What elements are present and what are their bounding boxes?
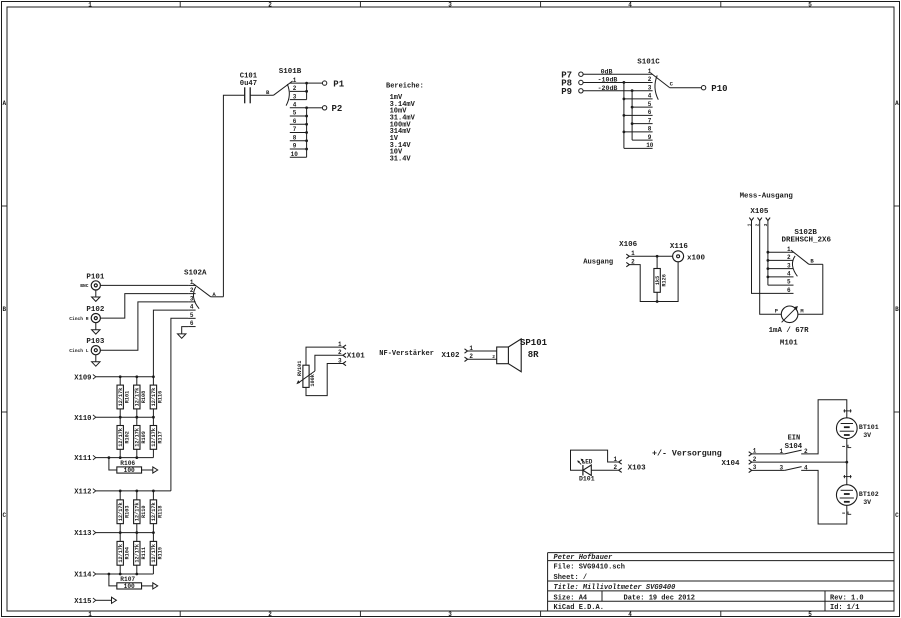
svg-text:1: 1 <box>613 456 617 463</box>
svg-text:12/17k: 12/17k <box>118 502 124 521</box>
wire P101 ground stub <box>95 290 97 297</box>
svg-text:9: 9 <box>293 143 297 150</box>
wire R103 leads <box>119 491 121 533</box>
connector P9 <box>579 89 583 93</box>
svg-text:5: 5 <box>808 611 812 618</box>
svg-text:1mA / 67R: 1mA / 67R <box>769 327 809 335</box>
junction dots S101C buses <box>623 81 626 84</box>
resistor R110 (12/17k) <box>134 500 147 524</box>
svg-text:4: 4 <box>787 271 791 278</box>
svg-text:Ausgang: Ausgang <box>583 258 613 266</box>
svg-text:P2: P2 <box>332 104 343 114</box>
svg-text:S104: S104 <box>785 443 803 451</box>
svg-text:X106: X106 <box>619 241 638 249</box>
svg-text:R117: R117 <box>158 431 164 443</box>
wire X114 rail <box>96 573 153 575</box>
port arrow X115 <box>112 597 117 603</box>
svg-text:5: 5 <box>293 110 297 117</box>
wire X102 pin2 to SP101 <box>468 358 497 360</box>
svg-text:31.4V: 31.4V <box>390 156 412 164</box>
wire S102A pin6 to ground <box>182 327 188 334</box>
wire P103 to S102A pin3 <box>100 302 188 350</box>
resistor R103 (12/17k) <box>117 500 130 524</box>
svg-text:1: 1 <box>648 68 652 75</box>
speaker SP101 (8R) <box>492 339 521 372</box>
wire S102A pin4 to X109 rail <box>153 310 188 377</box>
svg-text:3: 3 <box>448 611 452 618</box>
svg-text:8: 8 <box>293 134 297 141</box>
resistor R106 (100) <box>117 460 142 474</box>
wire S101B pin1 to P1 <box>307 82 323 84</box>
svg-text:Date: 19 dec 2012: Date: 19 dec 2012 <box>624 594 695 602</box>
svg-text:X103: X103 <box>628 464 647 472</box>
svg-text:0u47: 0u47 <box>240 80 257 88</box>
svg-text:2: 2 <box>338 349 342 356</box>
svg-text:R103: R103 <box>124 506 130 518</box>
svg-text:R110: R110 <box>141 506 147 518</box>
svg-text:12/17k: 12/17k <box>151 428 157 447</box>
svg-text:R104: R104 <box>124 547 130 559</box>
ground at P103 <box>92 362 100 366</box>
wire R116 leads <box>152 377 154 417</box>
svg-text:B: B <box>895 306 899 313</box>
wire R102 leads <box>119 417 121 457</box>
svg-text:12/17k: 12/17k <box>135 544 141 563</box>
svg-text:12/17k: 12/17k <box>151 502 157 521</box>
svg-text:2: 2 <box>268 1 272 8</box>
svg-text:8: 8 <box>648 126 652 133</box>
svg-text:X115: X115 <box>74 598 91 606</box>
connector P8 <box>579 80 583 84</box>
wire X112 rail <box>96 490 171 492</box>
svg-text:S101C: S101C <box>637 59 660 67</box>
wire R104 leads <box>119 533 121 574</box>
wire X111 to R106 <box>109 458 117 470</box>
svg-text:Mess-Ausgang: Mess-Ausgang <box>740 193 794 201</box>
wire RV101 bottom to X101 pin3 <box>306 364 343 396</box>
svg-text:5: 5 <box>190 312 194 319</box>
wire R117 leads <box>152 417 154 457</box>
svg-text:Rev: 1.0: Rev: 1.0 <box>830 594 864 602</box>
svg-text:X102: X102 <box>441 352 460 360</box>
wire X106 pin1 to X116 <box>629 255 672 257</box>
resistor R104 (12/17k) <box>117 541 130 565</box>
svg-text:+/- Versorgung: +/- Versorgung <box>652 449 722 459</box>
svg-text:5: 5 <box>808 1 812 8</box>
junction dots resistor matrix <box>119 375 122 378</box>
wire S104 pin2 to battery top <box>801 400 847 454</box>
switch S104 pole 2 <box>785 467 802 471</box>
svg-text:4: 4 <box>293 102 297 109</box>
svg-text:7: 7 <box>293 126 297 133</box>
wire R118 leads <box>152 491 154 533</box>
svg-text:BNC: BNC <box>80 283 89 289</box>
svg-text:10: 10 <box>646 142 654 149</box>
wire RV101 top to X101 pin1 <box>306 347 343 365</box>
meter M101 (1mA / 67R) <box>775 306 804 323</box>
wire R106 to port <box>142 469 153 471</box>
svg-text:7: 7 <box>648 117 652 124</box>
ground at S102A pin6 <box>178 334 186 338</box>
svg-text:P102: P102 <box>86 306 105 314</box>
wire R119 leads <box>152 533 154 574</box>
svg-text:2: 2 <box>648 76 652 83</box>
wire X106 pin2 to bottom rail <box>629 262 678 302</box>
svg-text:KiCad E.D.A.: KiCad E.D.A. <box>554 604 604 612</box>
connector P103 (Cinch L) <box>91 346 100 355</box>
svg-text:Peter Hofbauer: Peter Hofbauer <box>554 554 614 562</box>
svg-text:NF-Verstärker: NF-Verstärker <box>379 350 434 358</box>
svg-text:S101B: S101B <box>279 68 302 76</box>
svg-text:X104: X104 <box>722 460 741 468</box>
potentiometer RV101 (100k) <box>296 361 316 388</box>
resistor R126 (1k5) <box>654 269 667 293</box>
wire P102 ground stub <box>95 322 97 329</box>
junction dots S102B bus <box>767 251 770 254</box>
resistor R102 (12/17k) <box>117 426 130 450</box>
connector P10 <box>701 86 705 90</box>
wire X104 pin2 to battery midpoint <box>752 461 847 463</box>
svg-text:6: 6 <box>648 109 652 116</box>
svg-text:D101: D101 <box>579 476 595 483</box>
svg-text:100: 100 <box>124 467 135 474</box>
wire P7 to S101C pin1 <box>583 73 653 75</box>
svg-text:1: 1 <box>338 341 342 348</box>
svg-text:Size: A4: Size: A4 <box>554 594 588 602</box>
svg-text:1: 1 <box>88 611 92 618</box>
svg-text:4: 4 <box>190 304 194 311</box>
svg-text:B: B <box>2 306 6 313</box>
svg-text:1: 1 <box>293 77 297 84</box>
svg-text:2: 2 <box>613 464 617 471</box>
svg-text:P10: P10 <box>711 84 727 94</box>
svg-text:5: 5 <box>787 279 791 286</box>
wire X104 pin3 to S104 pole2 <box>752 469 785 471</box>
wire R107 to port <box>142 585 153 587</box>
svg-text:3: 3 <box>779 464 783 471</box>
svg-text:M: M <box>800 308 803 314</box>
wire X113 rail <box>96 532 153 534</box>
svg-text:3: 3 <box>338 357 342 364</box>
wire S104 pin4 to battery bottom <box>801 470 847 524</box>
svg-text:R108: R108 <box>141 391 147 403</box>
svg-text:1: 1 <box>190 279 194 286</box>
wire R111 leads <box>136 533 138 574</box>
connector X103 <box>619 460 622 464</box>
wire P103 ground stub <box>95 355 97 362</box>
svg-text:1k5: 1k5 <box>655 276 661 285</box>
svg-text:1: 1 <box>88 1 92 8</box>
svg-text:x100: x100 <box>687 255 706 263</box>
svg-text:3: 3 <box>293 93 297 100</box>
wire S101C common to P10 <box>670 87 702 89</box>
wire X111 rail <box>96 457 153 459</box>
resistor R107 (100) <box>117 576 142 590</box>
svg-text:2: 2 <box>787 254 791 261</box>
svg-text:M101: M101 <box>780 339 798 347</box>
svg-text:6: 6 <box>190 320 194 327</box>
svg-text:1: 1 <box>779 448 783 455</box>
svg-text:R101: R101 <box>124 391 130 403</box>
wire X115 stub <box>96 599 112 601</box>
svg-text:Id: 1/1: Id: 1/1 <box>830 604 859 612</box>
svg-text:X113: X113 <box>74 530 91 538</box>
wire X102 pin1 to SP101 <box>468 350 497 352</box>
svg-text:P1: P1 <box>333 79 344 89</box>
svg-text:File: SVG9410.sch: File: SVG9410.sch <box>554 564 625 572</box>
svg-text:3V: 3V <box>863 432 871 439</box>
wire RV101 wiper to X101 pin2 <box>315 355 343 371</box>
svg-text:8R: 8R <box>528 350 539 360</box>
svg-text:X114: X114 <box>74 572 92 580</box>
svg-text:BT101: BT101 <box>859 424 879 431</box>
port arrow after R107 <box>153 583 158 589</box>
svg-text:12/17k: 12/17k <box>151 388 157 407</box>
svg-text:10: 10 <box>291 151 299 158</box>
wire X109 rail <box>96 376 153 378</box>
svg-text:R116: R116 <box>158 391 164 403</box>
svg-text:12/17k: 12/17k <box>135 388 141 407</box>
wire X104 pin1 to S104 pole1 <box>752 453 785 455</box>
connector P102 (Cinch R) <box>91 314 100 323</box>
svg-text:12/17k: 12/17k <box>118 428 124 447</box>
svg-text:A: A <box>895 100 899 107</box>
svg-text:12/17k: 12/17k <box>135 428 141 447</box>
svg-text:6: 6 <box>293 118 297 125</box>
svg-text:Bereiche:: Bereiche: <box>386 82 424 90</box>
svg-text:X110: X110 <box>74 415 91 423</box>
svg-text:1: 1 <box>787 246 791 253</box>
wire R110 leads <box>136 491 138 533</box>
wire X114 to R107 <box>109 574 117 586</box>
wire S102A pin5 to X112 rail <box>171 318 188 491</box>
switch S104 pole 1 <box>785 450 802 454</box>
svg-text:12/17k: 12/17k <box>118 544 124 563</box>
svg-text:4: 4 <box>628 611 632 618</box>
svg-text:3V: 3V <box>863 499 871 506</box>
wire S101B pin4 to P2 <box>307 107 323 109</box>
wire X105 pin1 to S102B pin6 <box>752 221 794 294</box>
svg-text:2: 2 <box>268 611 272 618</box>
junction dot battery midpoint <box>845 461 848 464</box>
wire R101 leads <box>119 377 121 417</box>
svg-text:5: 5 <box>648 101 652 108</box>
svg-text:R109: R109 <box>141 431 147 443</box>
svg-text:3: 3 <box>190 295 194 302</box>
connector X101 <box>343 345 346 349</box>
svg-text:Sheet: /: Sheet: / <box>554 574 588 582</box>
svg-text:4: 4 <box>648 93 652 100</box>
svg-text:R106: R106 <box>120 460 135 467</box>
junction dot R126 top <box>656 255 659 258</box>
wire X110 rail <box>96 416 153 418</box>
connector P7 <box>579 72 583 76</box>
svg-text:P: P <box>775 308 778 314</box>
junction dot R126 bottom <box>656 300 659 303</box>
svg-text:R107: R107 <box>120 576 135 583</box>
wire S102A common A to C101 <box>223 95 244 296</box>
connector X116 <box>673 251 684 262</box>
wire LED anode to X103 pin2 <box>591 469 618 471</box>
svg-text:SP101: SP101 <box>520 338 548 348</box>
resistor R118 (12/17k) <box>150 500 163 524</box>
svg-text:EIN: EIN <box>788 435 801 443</box>
svg-text:S102A: S102A <box>184 270 207 278</box>
svg-text:100: 100 <box>124 583 135 590</box>
svg-text:BT102: BT102 <box>859 491 879 498</box>
LED D101 <box>577 459 591 476</box>
wire R109 leads <box>136 417 138 457</box>
text Bereiche list <box>386 82 424 163</box>
wire P9 to S101C pin3 <box>583 90 653 92</box>
junction dots S101B bus <box>305 82 308 85</box>
svg-text:P9: P9 <box>561 87 572 97</box>
svg-text:2: 2 <box>293 85 297 92</box>
svg-text:A: A <box>2 100 6 107</box>
svg-text:R102: R102 <box>124 431 130 443</box>
svg-text:Title: Millivoltmeter SVG9400: Title: Millivoltmeter SVG9400 <box>554 584 676 592</box>
wire X105 pin2 to meter P <box>760 221 782 315</box>
svg-text:R126: R126 <box>661 274 667 286</box>
wire P8 to S101C pin2 <box>583 82 653 84</box>
port arrow after R106 <box>153 467 158 473</box>
svg-text:P103: P103 <box>86 338 105 346</box>
svg-text:X109: X109 <box>74 374 91 382</box>
resistor R101 (12/17k) <box>117 385 130 409</box>
svg-text:LED: LED <box>582 458 593 465</box>
svg-text:6: 6 <box>787 287 791 294</box>
svg-text:3: 3 <box>448 1 452 8</box>
svg-text:Cinch R: Cinch R <box>69 316 89 322</box>
svg-text:4: 4 <box>628 1 632 8</box>
svg-text:X101: X101 <box>347 352 366 360</box>
connector P1 <box>322 81 326 85</box>
wire P101 to S102A pin1 <box>100 284 188 286</box>
svg-text:12/17k: 12/17k <box>135 502 141 521</box>
svg-text:2: 2 <box>190 287 194 294</box>
wire R108 leads <box>136 377 138 417</box>
wire C101 to S101B pivot B <box>250 94 273 96</box>
ground at P101 <box>92 297 100 301</box>
title block <box>548 553 894 612</box>
wire P102 to S102A pin2 <box>100 294 188 319</box>
svg-text:P101: P101 <box>86 273 105 281</box>
svg-text:R111: R111 <box>141 547 147 559</box>
svg-text:RV101: RV101 <box>297 361 303 377</box>
resistor R117 (12/17k) <box>150 426 163 450</box>
svg-text:DREHSCH_2X6: DREHSCH_2X6 <box>781 237 831 245</box>
wire X105 pin3 bus to S102B pins <box>767 221 769 286</box>
svg-text:X116: X116 <box>670 243 689 251</box>
svg-text:3: 3 <box>787 262 791 269</box>
svg-text:12/17k: 12/17k <box>118 388 124 407</box>
resistor R111 (12/17k) <box>134 541 147 565</box>
wire BT101 to midpoint junction <box>846 439 848 485</box>
connector P101 (BNC) <box>91 281 100 290</box>
svg-text:3: 3 <box>648 84 652 91</box>
svg-text:X111: X111 <box>74 455 92 463</box>
battery BT101 (3V) <box>836 418 857 439</box>
svg-text:C: C <box>2 512 6 519</box>
svg-text:X105: X105 <box>750 208 769 216</box>
battery BT102 (3V) <box>836 485 857 506</box>
svg-text:100k: 100k <box>310 374 316 386</box>
svg-text:2: 2 <box>492 354 495 360</box>
svg-text:9: 9 <box>648 134 652 141</box>
wire X103 pin1 loop to LED cathode <box>571 450 619 470</box>
svg-text:C: C <box>895 512 899 519</box>
svg-text:12/17k: 12/17k <box>151 544 157 563</box>
resistor R119 (12/17k) <box>150 541 163 565</box>
resistor R116 (12/17k) <box>150 385 163 409</box>
svg-text:Cinch L: Cinch L <box>69 348 89 354</box>
svg-text:R119: R119 <box>158 547 164 559</box>
wire R126 leads <box>656 256 658 301</box>
wire S102B common to meter M <box>798 264 823 314</box>
ground at P102 <box>92 330 100 334</box>
resistor R109 (12/17k) <box>134 426 147 450</box>
svg-text:X112: X112 <box>74 489 91 497</box>
capacitor C101 <box>245 87 251 103</box>
resistor R108 (12/17k) <box>134 385 147 409</box>
connector P2 <box>322 106 326 110</box>
svg-text:R118: R118 <box>158 506 164 518</box>
